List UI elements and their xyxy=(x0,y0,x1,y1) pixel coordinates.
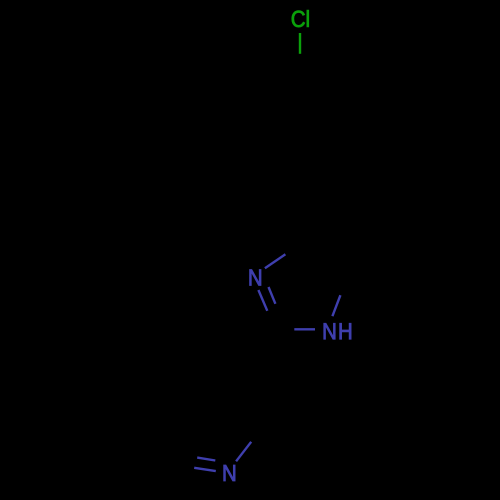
bond N1-C5, nitrogen-coloured half xyxy=(332,295,340,316)
bond C1-Cl, chlorine-coloured half xyxy=(299,33,301,54)
double bond N3=C2 inner line, nitrogen-coloured half xyxy=(269,287,276,304)
atom label N1 H, letter N xyxy=(324,323,335,339)
atom label N1' (pyridine) xyxy=(224,465,235,481)
atom label N3 (imidazole) xyxy=(250,270,261,286)
atom label Cl (chlorine) xyxy=(292,10,309,27)
bond N1'-C2', nitrogen-coloured half xyxy=(236,442,251,462)
double bond N1'=C6' main line, nitrogen-coloured half xyxy=(194,468,216,471)
double bond N3=C2 main line, nitrogen-coloured half xyxy=(258,290,267,311)
double bond N1'=C6' inner line, nitrogen-coloured half xyxy=(197,458,215,461)
benzene ring C1-C6 (4-chlorophenyl) xyxy=(262,75,338,163)
pyridine ring carbon bonds xyxy=(187,390,262,466)
bond N3-C4, nitrogen-coloured half xyxy=(265,254,286,268)
atom label N1 H, letter H xyxy=(340,323,351,339)
bond phenyl C4a - imidazole C4 xyxy=(300,163,315,232)
invisible carbon skeleton: black bonds on black background xyxy=(187,75,338,466)
bond imidazole C2 - pyridine C3' xyxy=(262,329,277,398)
bond C2-N1, nitrogen-coloured half (horizontal) xyxy=(294,328,315,330)
